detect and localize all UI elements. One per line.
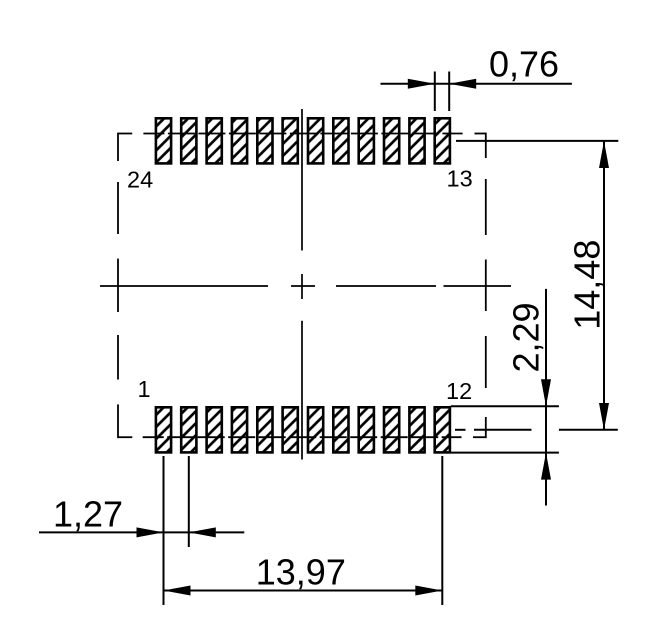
arrow 14,48 top (599, 141, 609, 168)
svg-text:14,48: 14,48 (567, 240, 608, 330)
svg-text:1,27: 1,27 (53, 494, 123, 535)
svg-text:2,29: 2,29 (506, 302, 547, 372)
arrow 1,27 right (189, 527, 216, 537)
pad 8 (333, 407, 348, 452)
pad 3 (207, 407, 222, 452)
arrow 13,97 left (164, 586, 191, 596)
body outline top edge (dashed, passes through top pad row) (118, 133, 486, 135)
dimension line (381, 83, 572, 85)
body outline bottom edge (dashed, passes through bottom pad row) (118, 436, 486, 438)
dimension line (39, 531, 244, 533)
pad 5 (257, 407, 272, 452)
extension line top (top pad row centerline) (456, 140, 618, 142)
pad 2 (181, 407, 196, 452)
pad 10 (384, 407, 399, 452)
dimension line (164, 590, 443, 592)
svg-text:24: 24 (127, 167, 153, 193)
pad 1 (bottom row, leftmost) (156, 407, 171, 452)
svg-text:0,76: 0,76 (489, 44, 559, 85)
pad 21 (232, 118, 247, 163)
pad 17 (333, 118, 348, 163)
dimension line (603, 141, 605, 430)
pad 7 (308, 407, 323, 452)
extension line bottom (pad12 bottom edge) (451, 452, 559, 454)
pad 24 (top row, leftmost) (156, 118, 171, 163)
extension line pad2 center (188, 456, 190, 547)
pad 22 (207, 118, 222, 163)
pad 9 (359, 407, 374, 452)
dimension 0,76: pad width, top (381, 72, 572, 112)
pad 18 (308, 118, 323, 163)
dimension 2,29: pad length, right of bottom row (451, 289, 559, 506)
extension line left (pad13 left edge) (434, 72, 436, 112)
body outline left edge (dashed) (117, 133, 119, 439)
dimension 1,27: pad pitch, bottom left (39, 456, 244, 605)
pad 4 (232, 407, 247, 452)
arrow 2,29 bottom (541, 453, 551, 480)
vertical centerline (dash-dot through both pad rows) (301, 109, 303, 460)
body outline right edge (dashed) (485, 133, 487, 439)
extension line top (pad12 top edge) (451, 405, 559, 407)
pad 16 (359, 118, 374, 163)
dimension line (545, 289, 547, 506)
dimension 13,97: first-to-last pad center span (164, 456, 443, 605)
pad 19 (283, 118, 298, 163)
svg-text:1: 1 (138, 376, 151, 402)
horizontal centerline (dash-dot) (100, 285, 511, 287)
svg-text:12: 12 (446, 378, 472, 404)
arrow 0,76 left (408, 79, 435, 89)
arrow 13,97 right (415, 586, 442, 596)
pad 11 (409, 407, 424, 452)
pad 15 (384, 118, 399, 163)
arrow 1,27 left (137, 527, 164, 537)
extension line pad12 center (441, 456, 443, 605)
pad 20 (257, 118, 272, 163)
svg-text:13,97: 13,97 (256, 552, 346, 593)
arrow 0,76 right (449, 79, 476, 89)
dimension 14,48: row-center to row-center, right side (455, 141, 618, 430)
extension line right (pad13 right edge) (448, 72, 450, 112)
pad 14 (409, 118, 424, 163)
svg-text:13: 13 (447, 166, 473, 192)
pad 23 (181, 118, 196, 163)
extension line pad1 center (163, 456, 165, 605)
arrow 14,48 bottom (599, 403, 609, 430)
pad 6 (283, 407, 298, 452)
pad 13 (435, 118, 450, 163)
arrow 2,29 top (541, 379, 551, 406)
pad 12 (435, 407, 450, 452)
extension line bottom (bottom pad row centerline, dash-dot) (455, 429, 466, 431)
